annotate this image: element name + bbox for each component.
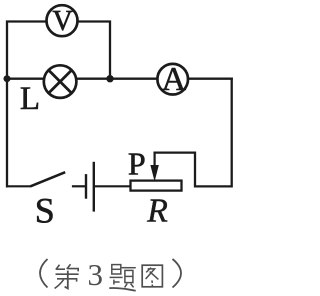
node: junction right — [106, 75, 113, 82]
svg-text:3: 3 — [88, 257, 104, 292]
ammeter A circle — [157, 64, 188, 95]
wire: voltmeter branch top — [7, 22, 110, 79]
node: junction left — [4, 75, 11, 82]
caption: character 第 — [55, 264, 79, 288]
svg-text:R: R — [146, 193, 168, 230]
rheostat R box — [131, 181, 182, 191]
lamp L circle — [44, 65, 77, 98]
svg-text:V: V — [52, 6, 72, 37]
svg-text:A: A — [162, 61, 187, 98]
switch S — [7, 172, 85, 186]
caption: character 图 — [142, 265, 162, 287]
svg-text:S: S — [35, 190, 55, 230]
voltmeter V circle — [47, 5, 78, 36]
wire: main horizontal through lamp and ammeter — [7, 78, 232, 80]
caption: ( paren — [40, 259, 48, 288]
battery cell — [86, 162, 130, 212]
wire: left vertical down to switch — [6, 79, 8, 187]
rheostat slider arrow P — [151, 153, 158, 180]
caption: ) paren — [173, 259, 182, 288]
wire: right vertical from ammeter down — [155, 79, 232, 187]
svg-text:P: P — [128, 145, 146, 181]
lamp X cross — [49, 70, 72, 93]
caption: character 题 — [109, 265, 136, 291]
svg-text:L: L — [20, 81, 40, 117]
